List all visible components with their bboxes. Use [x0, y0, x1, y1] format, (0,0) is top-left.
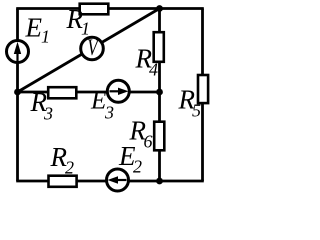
svg-text:E: E [90, 88, 106, 115]
wire: bottom horizontal [16, 180, 204, 183]
voltmeter V [81, 36, 104, 61]
svg-text:2: 2 [65, 158, 74, 178]
wire: diagonal voltmeter branch [18, 9, 160, 93]
wire: middle horizontal [18, 91, 160, 94]
resistor R6 [154, 122, 164, 151]
resistor R2 [49, 176, 77, 187]
svg-text:1: 1 [41, 27, 50, 47]
node middle-right junction [156, 89, 163, 96]
svg-text:2: 2 [133, 157, 142, 177]
node left-middle junction [14, 89, 21, 96]
svg-text:6: 6 [144, 132, 153, 152]
source E1 [7, 41, 29, 63]
svg-text:4: 4 [149, 60, 158, 80]
svg-text:3: 3 [43, 104, 53, 124]
source E2 [107, 169, 129, 191]
wire: left vertical branch [16, 9, 19, 182]
node top-right junction [156, 5, 163, 12]
source E3 [107, 80, 129, 102]
svg-text:5: 5 [192, 101, 201, 121]
resistor R3 [48, 87, 76, 98]
resistor R1 [80, 4, 109, 15]
svg-text:3: 3 [104, 103, 114, 123]
wire: middle vertical branch [158, 9, 161, 182]
resistor R5 [198, 75, 208, 103]
resistor R4 [154, 32, 164, 62]
node bottom junction [156, 178, 163, 185]
wire: top horizontal [16, 7, 204, 10]
svg-text:E: E [25, 13, 43, 43]
wire: right vertical branch [201, 9, 204, 182]
